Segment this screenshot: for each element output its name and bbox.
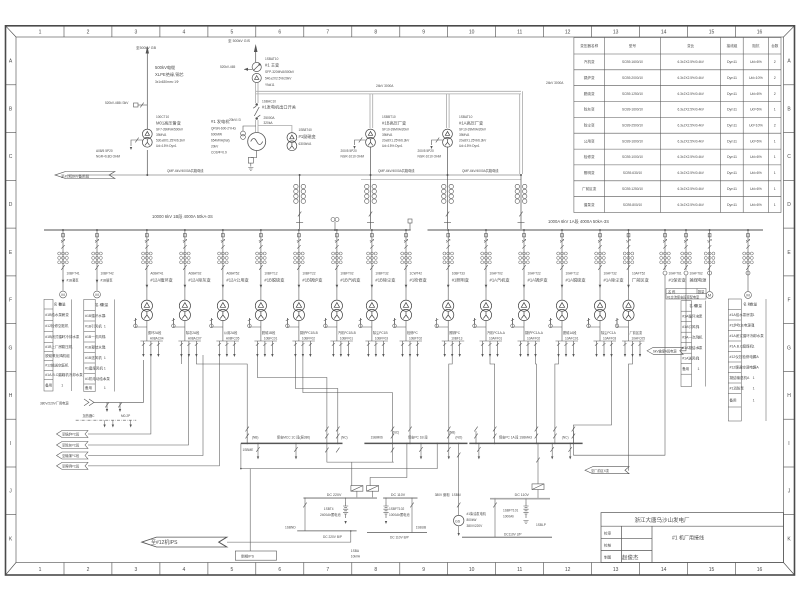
generator grounding transformer (248, 151, 256, 167)
feeder M2 at x=709.6 (704, 229, 715, 298)
transformer #1A锅炉变 (518, 300, 529, 321)
LV bracket 除尘PC1A (594, 341, 617, 354)
svg-text:10AFT62: 10AFT62 (690, 272, 703, 276)
svg-text:汽机PC1A-A: 汽机PC1A-A (487, 330, 506, 335)
svg-text:照明PC: 照明PC (449, 331, 461, 335)
unit aux transformer #1B 高压厂变 (366, 129, 376, 147)
svg-text:39MVA: 39MVA (459, 133, 470, 137)
svg-text:型号: 型号 (629, 43, 637, 48)
svg-text:10kVA: 10kVA (351, 555, 361, 559)
svg-text:12: 12 (565, 567, 571, 573)
banner 至厂前区变 (585, 467, 629, 474)
svg-text:520kV-465/√3kV: 520kV-465/√3kV (105, 101, 129, 105)
svg-text:1SBND: 1SBND (285, 526, 296, 530)
svg-text:F: F (9, 298, 12, 304)
svg-text:9: 9 (422, 567, 425, 573)
svg-text:5: 5 (231, 567, 234, 573)
svg-text:1: 1 (104, 345, 106, 349)
wiring below emergency buses (241, 443, 538, 551)
svg-text:至 500kV GIS: 至 500kV GIS (228, 39, 251, 43)
svg-text:汽机变: 汽机变 (584, 59, 595, 64)
svg-text:E: E (787, 250, 791, 256)
LV bracket 照明PC (442, 341, 465, 354)
svg-text:I: I (788, 441, 789, 447)
svg-text:#1A.B.C磨煤机: #1A.B.C磨煤机 (730, 343, 754, 348)
svg-text:1: 1 (753, 365, 755, 369)
svg-text:循泵变: 循泵变 (584, 202, 595, 207)
svg-text:10BFF03: 10BFF03 (375, 337, 388, 341)
svg-text:8: 8 (374, 567, 377, 573)
svg-text:1: 1 (753, 323, 755, 327)
arrester beside #1B锅炉变 (287, 318, 299, 327)
feeder 输煤电源 at x=686 (681, 229, 707, 283)
svg-text:#1交流保安段变配电室: #1交流保安段变配电室 (667, 294, 699, 299)
svg-text:1SBFT102: 1SBFT102 (389, 507, 404, 511)
svg-text:1: 1 (39, 30, 42, 36)
svg-text:10BFF02: 10BFF02 (302, 337, 315, 341)
standby transformer neutral (131, 138, 143, 146)
svg-text:DC 110V: DC 110V (391, 493, 406, 497)
feeder M2 at x=748 (743, 229, 754, 298)
svg-text:保安MCC 1C 段(原380): 保安MCC 1C 段(原380) (277, 435, 310, 440)
svg-text:循环2A段: 循环2A段 (148, 330, 162, 335)
svg-text:7: 7 (326, 30, 329, 36)
svg-text:至500kV GB: 至500kV GB (136, 46, 157, 50)
svg-text:24kV 3000A: 24kV 3000A (376, 84, 394, 88)
svg-text:10BFT41: 10BFT41 (67, 272, 80, 276)
relay boxes (351, 486, 363, 492)
svg-text:1SBAC10: 1SBAC10 (262, 100, 276, 104)
svg-text:#12暖通空调电源A: #12暖通空调电源A (730, 364, 760, 369)
svg-text:7: 7 (326, 567, 329, 573)
svg-text:3: 3 (135, 567, 138, 573)
arrester beside #1B除尘变 (360, 318, 372, 327)
svg-text:变比: 变比 (687, 43, 695, 48)
svg-text:SCB9-2000/10: SCB9-2000/10 (622, 76, 643, 80)
svg-text:1: 1 (774, 108, 776, 112)
svg-text:#1A给水泵房变: #1A给水泵房变 (730, 312, 754, 317)
generator PT stub (241, 126, 256, 139)
svg-text:DC 220V: DC 220V (327, 493, 342, 497)
feeder #1照明变 at x=448.2 (435, 229, 469, 357)
svg-text:A08AT02: A08AT02 (188, 272, 201, 276)
svg-text:接线组: 接线组 (727, 43, 738, 48)
svg-text:SCB9-1600/10: SCB9-1600/10 (622, 139, 643, 143)
feeder #1检修变 at x=406 (393, 229, 427, 357)
svg-text:1CWT42: 1CWT42 (410, 272, 423, 276)
svg-text:1SBM: 1SBM (452, 493, 461, 497)
title block (601, 513, 784, 563)
svg-text:A: A (9, 59, 13, 65)
arrester beside #12A循环变 (135, 318, 147, 327)
transformer #12A循环变 (141, 300, 152, 321)
svg-text:脱硫1B段: 脱硫1B段 (262, 330, 276, 335)
svg-text:14: 14 (661, 30, 667, 36)
svg-text:#1B除尘变: #1B除尘变 (375, 277, 395, 284)
svg-text:J: J (9, 489, 12, 495)
svg-text:24kV 3000A: 24kV 3000A (546, 81, 564, 85)
generator busduct vertical (255, 83, 258, 132)
svg-text:#1A闭式循环冷却水泵: #1A闭式循环冷却水泵 (730, 333, 765, 338)
standby transformer M01 (142, 129, 152, 147)
svg-text:6.3±2X2.5%/0.4kV: 6.3±2X2.5%/0.4kV (678, 139, 705, 143)
transformer #1检修变 (400, 300, 411, 321)
svg-text:NGR-1010 OHM: NGR-1010 OHM (341, 155, 365, 159)
svg-text:SF10-39MVA/20kV: SF10-39MVA/20kV (382, 128, 410, 132)
svg-text:1: 1 (753, 355, 755, 359)
feeder #12A循环变 at x=146.9 (134, 229, 173, 357)
svg-text:10: 10 (469, 30, 475, 36)
svg-text:B: B (9, 107, 13, 113)
svg-text:#12A公用变: #12A公用变 (226, 277, 248, 284)
svg-text:#1A高压厂变: #1A高压厂变 (459, 120, 483, 127)
svg-text:25000A: 25000A (264, 116, 276, 120)
6kV busbar 1A (428, 229, 764, 231)
svg-text:#1B给水泵房变: #1B给水泵房变 (45, 312, 69, 317)
svg-text:1SBUB: 1SBUB (416, 526, 426, 530)
6kV busbar 1B (44, 229, 411, 231)
svg-text:阻抗: 阻抗 (752, 43, 760, 48)
svg-text:16: 16 (757, 30, 763, 36)
incoming feeder at x=447.5 (447, 175, 449, 230)
svg-text:检修变: 检修变 (584, 154, 595, 159)
svg-text:#1柴油发电机: #1柴油发电机 (467, 511, 487, 516)
svg-text:H: H (787, 393, 791, 399)
svg-text:名 称: 名 称 (668, 289, 676, 294)
svg-text:DC 110V B/P: DC 110V B/P (390, 536, 409, 540)
svg-text:#1B凝结水泵: #1B凝结水泵 (85, 344, 106, 349)
svg-text:台数: 台数 (771, 43, 779, 48)
svg-text:K: K (787, 536, 791, 542)
svg-text:H: H (9, 393, 13, 399)
svg-text:1: 1 (774, 155, 776, 159)
LV bracket 脱硫1B段 (254, 341, 277, 354)
svg-text:39MVA: 39MVA (382, 133, 393, 137)
svg-text:600MW: 600MW (211, 133, 222, 137)
svg-text:SCB9-1000/10: SCB9-1000/10 (622, 155, 643, 159)
LV bracket 锅炉PC1B-B (292, 341, 315, 354)
svg-text:100CT10: 100CT10 (156, 115, 169, 119)
feeder #1B除尘变 at x=371.9 (359, 229, 396, 357)
svg-text:1: 1 (104, 314, 106, 318)
svg-text:380V/220V: 380V/220V (467, 524, 484, 528)
aux power room label box (666, 289, 706, 300)
emergency bus 1B (364, 442, 467, 444)
svg-text:SCB9-1600/10: SCB9-1600/10 (622, 108, 643, 112)
svg-text:#1发电机出口开关: #1发电机出口开关 (262, 104, 296, 111)
busduct horizontal 24kV (256, 91, 522, 174)
svg-text:#1B循泵: #1B循泵 (101, 278, 114, 283)
svg-text:10BFT32: 10BFT32 (375, 272, 388, 276)
svg-text:G: G (787, 345, 791, 351)
motor feeder (706, 292, 713, 299)
transformer #1B汽机变 (331, 300, 342, 321)
svg-text:6.3±2X2.5%/0.4kV: 6.3±2X2.5%/0.4kV (678, 187, 705, 191)
svg-text:#1B送风机: #1B送风机 (85, 355, 102, 360)
svg-text:15: 15 (709, 30, 715, 36)
svg-text:#12A除灰变: #12A除灰变 (188, 277, 210, 284)
svg-text:除灰变: 除灰变 (584, 107, 595, 112)
svg-text:I: I (10, 441, 11, 447)
svg-text:1SBM06: 1SBM06 (371, 436, 383, 440)
svg-text:10AFF01: 10AFF01 (489, 337, 502, 341)
svg-text:#1B引风机: #1B引风机 (85, 323, 102, 328)
svg-text:1: 1 (698, 367, 700, 371)
svg-text:1: 1 (753, 344, 755, 348)
svg-text:1: 1 (104, 377, 106, 381)
svg-text:至输煤PC段: 至输煤PC段 (62, 453, 80, 458)
svg-text:倒相IPS: 倒相IPS (241, 554, 255, 559)
svg-text:10AFT02: 10AFT02 (490, 272, 503, 276)
svg-text:(NB): (NB) (449, 431, 456, 435)
svg-text:#1检修变: #1检修变 (410, 277, 427, 284)
svg-text:1SBME: 1SBME (243, 448, 254, 452)
incoming feeder at x=370.5 (370, 175, 372, 230)
svg-text:1SBFT101: 1SBFT101 (503, 509, 518, 513)
svg-text:Ud=15% Dyn1: Ud=15% Dyn1 (156, 144, 177, 148)
svg-text:#12检修空压机: #12检修空压机 (45, 323, 69, 328)
svg-text:Ud=6%: Ud=6% (750, 187, 763, 191)
svg-text:10AFT12: 10AFT12 (566, 272, 579, 276)
svg-text:广前区变: 广前区变 (582, 186, 597, 191)
svg-text:SCB9-1250/10: SCB9-1250/10 (622, 187, 643, 191)
svg-text:脱硫变: 脱硫变 (584, 91, 595, 96)
svg-text:1: 1 (774, 171, 776, 175)
svg-text:10AFT32: 10AFT32 (604, 272, 617, 276)
svg-text:#12输送空压机: #12输送空压机 (45, 363, 69, 368)
svg-text:输煤电源: 输煤电源 (690, 277, 708, 284)
arrester beside #1A脱硫变 (551, 318, 563, 327)
svg-text:1: 1 (61, 313, 63, 317)
svg-text:脱硫氧化风机组: 脱硫氧化风机组 (45, 353, 70, 358)
svg-text:校核: 校核 (604, 543, 612, 548)
svg-text:QFSN-600-2YHG: QFSN-600-2YHG (211, 127, 236, 131)
transformer #12A除灰变 (179, 300, 190, 321)
svg-text:数量: 数量 (101, 302, 108, 307)
svg-text:除尘PC1A: 除尘PC1A (601, 330, 617, 335)
svg-text:Ud=15% Dyn1: Ud=15% Dyn1 (382, 144, 403, 148)
tag to #2 unit 6kV standby (55, 172, 115, 179)
svg-text:6300kVA: 6300kVA (299, 142, 313, 146)
svg-text:Ud=6%: Ud=6% (750, 171, 763, 175)
svg-text:锅炉变: 锅炉变 (584, 75, 595, 80)
svg-text:6.3±2X2.5%/0.4kV: 6.3±2X2.5%/0.4kV (678, 203, 705, 207)
svg-text:#1炉吹灰电源变: #1炉吹灰电源变 (730, 322, 755, 327)
LV bracket 除灰2A段 (178, 341, 201, 354)
svg-text:1: 1 (61, 324, 63, 328)
svg-text:10AFT22: 10AFT22 (528, 272, 541, 276)
extra slashes on above-bus stubs (246, 427, 249, 432)
svg-text:M01高压备变: M01高压备变 (156, 120, 181, 127)
svg-text:10AFF02: 10AFF02 (527, 337, 540, 341)
svg-text:A08AT41: A08AT41 (150, 272, 163, 276)
feeder #1B循泵 at x=97 (92, 229, 114, 298)
svg-text:1SBLP: 1SBLP (536, 523, 546, 527)
disconnect on standby line (134, 103, 148, 108)
staircase wiring to emergency buses (181, 354, 611, 455)
svg-text:1SB8T40: 1SB8T40 (299, 128, 313, 132)
svg-text:Ud=6%: Ud=6% (750, 139, 763, 143)
svg-text:1: 1 (61, 335, 63, 339)
svg-text:1: 1 (104, 356, 106, 360)
incoming feeder at x=521 (520, 175, 522, 230)
svg-text:1: 1 (753, 376, 755, 380)
emergency bus 1C (241, 442, 343, 444)
svg-text:6.3±2X2.5%/0.4kV: 6.3±2X2.5%/0.4kV (678, 171, 705, 175)
svg-text:11: 11 (517, 567, 522, 573)
svg-text:1: 1 (774, 139, 776, 143)
svg-text:C: C (787, 154, 791, 160)
svg-text:Ud=6%: Ud=6% (750, 203, 763, 207)
svg-text:浙江大唐乌沙山发电厂: 浙江大唐乌沙山发电厂 (634, 516, 690, 524)
svg-text:10BFF01: 10BFF01 (340, 337, 353, 341)
svg-text:加热器C: 加热器C (83, 413, 96, 418)
svg-text:320kA: 320kA (264, 121, 274, 125)
svg-text:13: 13 (613, 567, 619, 573)
excitation transformer (287, 133, 297, 151)
保安变 feeder drop to bus (573, 275, 665, 455)
svg-text:6.3±2X2.5%/0.4kV: 6.3±2X2.5%/0.4kV (678, 108, 705, 112)
svg-text:3x1x630mm² 1Ф: 3x1x630mm² 1Ф (155, 80, 179, 84)
tag 至锅炉PC段 (57, 431, 89, 438)
transformer #1B除尘变 (366, 300, 377, 321)
svg-text:Ud=10%: Ud=10% (749, 124, 764, 128)
generator #1 (248, 133, 266, 151)
svg-text:COSΦ=0.9: COSΦ=0.9 (211, 151, 227, 155)
feeder #1A除尘变 at x=600 (587, 229, 624, 357)
transformer #12A公用变 (217, 300, 228, 321)
svg-text:2: 2 (774, 76, 776, 80)
svg-text:8: 8 (374, 30, 377, 36)
svg-text:10BFT02: 10BFT02 (340, 272, 353, 276)
svg-text:6: 6 (278, 567, 281, 573)
svg-text:备用: 备用 (730, 397, 738, 402)
feeder #12A除灰变 at x=184.9 (172, 229, 211, 357)
svg-text:凝结输送机A: 凝结输送机A (730, 375, 750, 380)
svg-text:39MVA: 39MVA (156, 133, 167, 137)
svg-text:Dyn11: Dyn11 (727, 203, 737, 207)
transformer #1B脱硫变 (255, 300, 266, 321)
svg-text:380V/220V厂用电源: 380V/220V厂用电源 (40, 401, 69, 406)
svg-text:520kV-465: 520kV-465 (220, 65, 235, 69)
right equipment table 1 (681, 301, 706, 387)
svg-text:20kV: 20kV (211, 145, 219, 149)
PT stub on 1B bus (331, 218, 339, 231)
svg-text:Dyn11: Dyn11 (727, 108, 737, 112)
svg-text:照明变: 照明变 (584, 170, 595, 175)
svg-text:(NB): (NB) (252, 436, 259, 440)
arrester beside #1A汽机变 (475, 318, 487, 327)
arrester beside #1B汽机变 (325, 318, 337, 327)
feeder #12A公用变 at x=222.9 (210, 229, 249, 357)
svg-text:Dyn11: Dyn11 (727, 139, 737, 143)
svg-text:QMF-6kV/4000A共箱母线: QMF-6kV/4000A共箱母线 (167, 168, 204, 173)
svg-text:制图: 制图 (604, 555, 612, 560)
svg-text:YNd11: YNd11 (265, 83, 275, 87)
svg-text:1: 1 (698, 325, 700, 329)
aux transformer #B neutral stub (355, 138, 366, 145)
svg-text:#1B循环水泵: #1B循环水泵 (85, 313, 106, 318)
svg-text:#1A锅炉变: #1A锅炉变 (528, 277, 548, 284)
svg-text:DC110V 2/P: DC110V 2/P (504, 533, 521, 537)
arrester beside #12A除灰变 (173, 318, 185, 327)
svg-text:A08AC04: A08AC04 (150, 337, 164, 341)
svg-text:10AFF03: 10AFF03 (603, 337, 616, 341)
svg-text:#1B高压厂变: #1B高压厂变 (382, 120, 406, 127)
svg-text:DC 220V B/P: DC 220V B/P (323, 535, 342, 539)
transformer #1A汽机变 (480, 300, 491, 321)
svg-text:6.3±2X2.5%/0.4kV: 6.3±2X2.5%/0.4kV (678, 76, 705, 80)
svg-text:至锅炉PC段: 至锅炉PC段 (62, 432, 80, 437)
svg-text:6.3±2X2.5%/0.4kV: 6.3±2X2.5%/0.4kV (678, 155, 705, 159)
svg-text:15: 15 (709, 567, 715, 573)
500kV incoming line to standby transformer (146, 60, 148, 175)
svg-text:#1A汽机变: #1A汽机变 (490, 277, 510, 284)
svg-text:G: G (9, 345, 13, 351)
svg-text:#1B脱硫变: #1B脱硫变 (264, 277, 284, 284)
svg-text:2: 2 (774, 124, 776, 128)
feeder #1A锅炉变 at x=524 (511, 229, 548, 357)
svg-text:#1A.B.C磨煤机冷却水泵: #1A.B.C磨煤机冷却水泵 (45, 372, 83, 377)
svg-text:#1 主变: #1 主变 (265, 62, 279, 69)
svg-text:14: 14 (661, 567, 667, 573)
right equipment table 2 (728, 299, 766, 421)
svg-text:380V 倒相: 380V 倒相 (435, 492, 450, 497)
svg-text:10BFT42: 10BFT42 (101, 272, 114, 276)
svg-text:6.3±2X2.5%/0.4kV: 6.3±2X2.5%/0.4kV (678, 60, 705, 64)
svg-text:10000 6kV 1B段 4000A 50kA-3S: 10000 6kV 1B段 4000A 50kA-3S (152, 213, 213, 220)
svg-text:Dyn11: Dyn11 (727, 60, 737, 64)
svg-text:至#2机6kV备用段: 至#2机6kV备用段 (61, 173, 90, 178)
svg-text:NGR+6.8Ω OHM: NGR+6.8Ω OHM (96, 155, 120, 159)
PT stub on main transformer HV (244, 68, 252, 70)
feeder #1B凝泵 at x=63 (58, 229, 80, 298)
stub with box on 1B bus (408, 219, 412, 230)
arrester beside #1A锅炉变 (513, 318, 525, 327)
tag 至除灰PC段 (57, 442, 89, 449)
svg-text:脱硫1A段: 脱硫1A段 (563, 330, 577, 335)
aux transformer #A neutral stub (432, 138, 443, 145)
svg-text:1: 1 (698, 315, 700, 319)
svg-text:1: 1 (753, 398, 755, 402)
svg-text:1000Ah: 1000Ah (503, 515, 514, 519)
svg-text:A08AC07: A08AC07 (188, 337, 202, 341)
svg-text:9: 9 (422, 30, 425, 36)
svg-text:NGR-1010 OHM: NGR-1010 OHM (418, 155, 442, 159)
svg-text:锅炉PC1B-B: 锅炉PC1B-B (300, 330, 318, 335)
svg-text:1: 1 (61, 354, 63, 358)
svg-text:1000A 6kV 1A段 4000A 50kA-3S: 1000A 6kV 1A段 4000A 50kA-3S (548, 218, 609, 225)
svg-text:6kV输煤A段电源: 6kV输煤A段电源 (653, 349, 677, 354)
svg-text:QMF-6kV/4000A共箱母线: QMF-6kV/4000A共箱母线 (378, 168, 415, 173)
svg-text:#1机电动给水泵: #1机电动给水泵 (85, 376, 110, 381)
arrester beside #1B脱硫变 (249, 318, 261, 327)
svg-text:#1A凝结水泵: #1A凝结水泵 (682, 345, 703, 350)
svg-text:1: 1 (774, 187, 776, 191)
svg-text:(NO): (NO) (455, 436, 462, 440)
arrester beside 厂前区变 (617, 318, 629, 327)
LV bracket 脱硫1A段 (556, 341, 579, 354)
svg-text:#1B一次风机: #1B一次风机 (85, 334, 106, 339)
svg-text:M0.2P: M0.2P (121, 414, 130, 418)
feeder #1A汽机变 at x=486 (473, 229, 510, 357)
long drop from 厂前区变 to banner (629, 354, 633, 470)
svg-text:SFP-320MVA/500kV: SFP-320MVA/500kV (265, 70, 295, 74)
svg-text:1SBT4: 1SBT4 (324, 507, 334, 511)
svg-text:3: 3 (61, 345, 63, 349)
svg-text:#1B上厂房变压机: #1B上厂房变压机 (45, 344, 73, 349)
svg-text:#1 机厂用接线: #1 机厂用接线 (672, 535, 704, 542)
